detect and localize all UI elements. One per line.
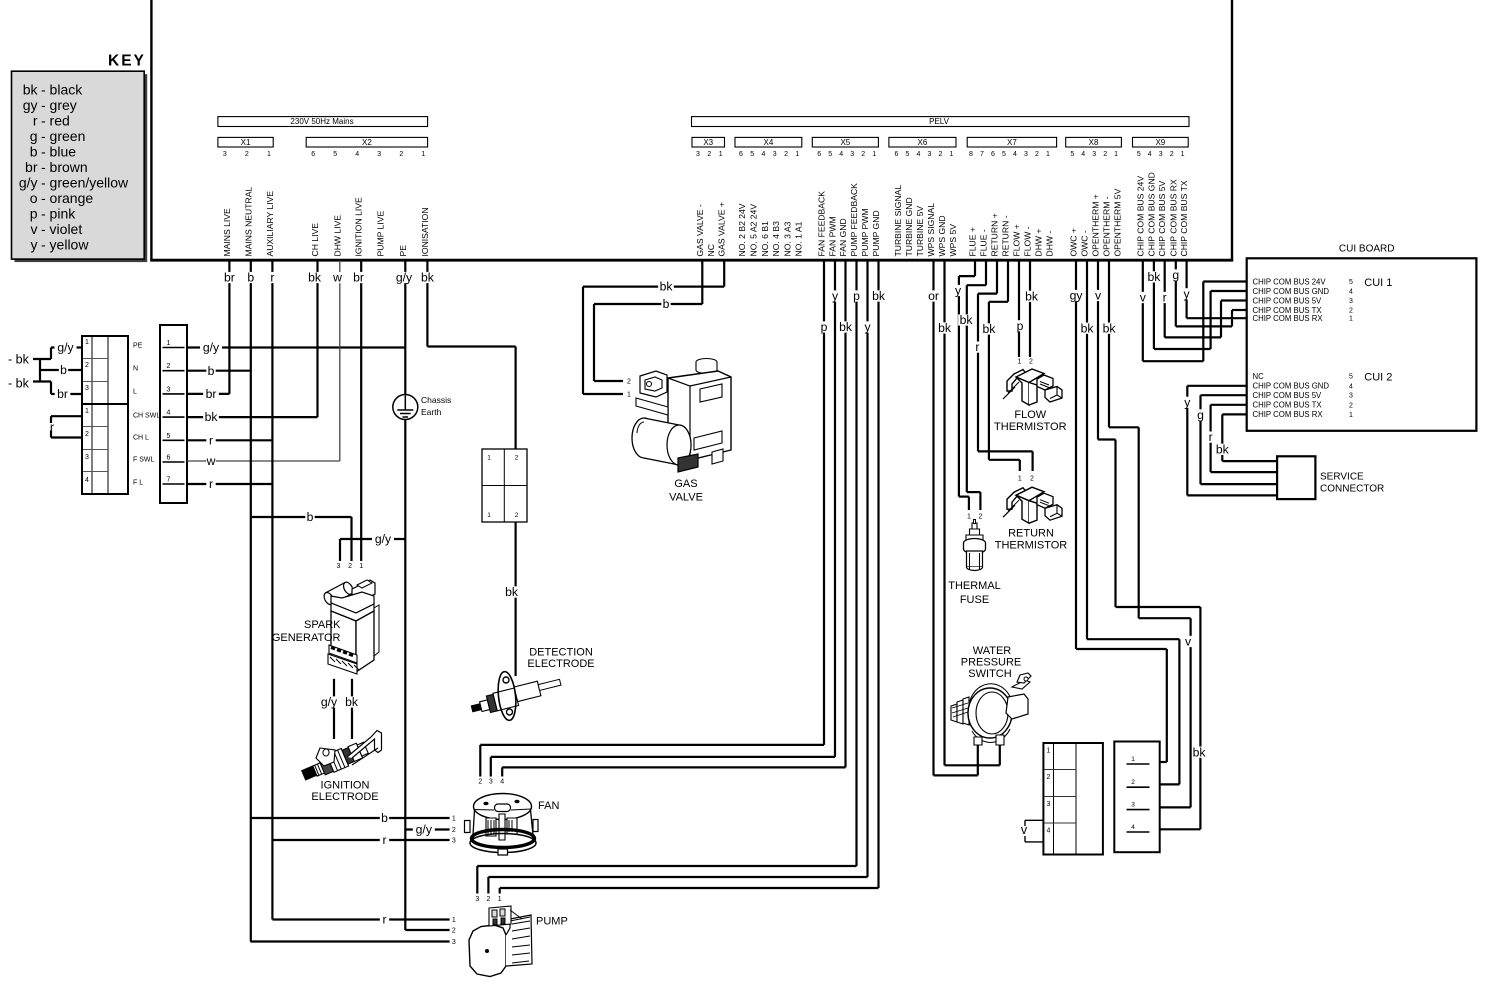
svg-text:CHIP COM BUS GND: CHIP COM BUS GND bbox=[1253, 382, 1330, 391]
svg-text:CHIP COM BUS TX: CHIP COM BUS TX bbox=[1179, 180, 1189, 256]
svg-text:p: p bbox=[853, 289, 860, 303]
svg-text:5: 5 bbox=[1070, 151, 1074, 158]
svg-text:Chassis: Chassis bbox=[421, 395, 451, 405]
svg-text:CHIP COM BUS 5V: CHIP COM BUS 5V bbox=[1253, 391, 1323, 400]
svg-text:X3: X3 bbox=[703, 138, 713, 147]
svg-text:PUMP FEEDBACK: PUMP FEEDBACK bbox=[849, 183, 859, 257]
svg-text:1: 1 bbox=[487, 512, 491, 519]
svg-text:1: 1 bbox=[1047, 748, 1051, 755]
svg-text:7: 7 bbox=[167, 477, 171, 484]
svg-text:AUXILIARY LIVE: AUXILIARY LIVE bbox=[265, 191, 275, 257]
svg-text:br: br bbox=[25, 159, 38, 175]
svg-text:WPS 5V: WPS 5V bbox=[948, 224, 958, 257]
svg-text:2: 2 bbox=[486, 896, 490, 903]
svg-text:3: 3 bbox=[85, 454, 89, 461]
svg-text:FAN PWM: FAN PWM bbox=[828, 216, 838, 256]
svg-text:IGNITION: IGNITION bbox=[321, 780, 370, 792]
svg-text:5: 5 bbox=[906, 151, 910, 158]
svg-text:CHIP COM BUS RX: CHIP COM BUS RX bbox=[1253, 410, 1324, 419]
svg-text:2: 2 bbox=[515, 455, 519, 462]
svg-text:br: br bbox=[353, 271, 364, 285]
svg-text:RETURN +: RETURN + bbox=[990, 213, 1000, 256]
svg-text:CUI BOARD: CUI BOARD bbox=[1339, 244, 1395, 255]
svg-text:3: 3 bbox=[1131, 802, 1135, 809]
svg-text:3: 3 bbox=[475, 896, 479, 903]
svg-text:FLUE -: FLUE - bbox=[979, 229, 989, 256]
svg-text:PELV: PELV bbox=[929, 117, 950, 126]
svg-text:DETECTION: DETECTION bbox=[529, 647, 593, 659]
svg-text:p: p bbox=[821, 320, 828, 334]
svg-text:3: 3 bbox=[1024, 151, 1028, 158]
svg-text:r: r bbox=[975, 340, 979, 354]
svg-text:3: 3 bbox=[167, 386, 171, 393]
svg-text:b: b bbox=[247, 271, 254, 285]
svg-text:1: 1 bbox=[872, 151, 876, 158]
svg-text:CUI 2: CUI 2 bbox=[1364, 372, 1392, 384]
svg-text:v: v bbox=[1140, 291, 1147, 305]
svg-text:Earth: Earth bbox=[421, 407, 442, 417]
svg-text:r: r bbox=[270, 271, 274, 285]
svg-text:bk: bk bbox=[345, 695, 359, 709]
svg-text:GAS VALVE -: GAS VALVE - bbox=[695, 204, 705, 256]
svg-text:SPARK: SPARK bbox=[304, 619, 341, 631]
svg-text:2: 2 bbox=[515, 512, 519, 519]
svg-text:- orange: - orange bbox=[41, 190, 93, 206]
svg-text:br: br bbox=[224, 271, 235, 285]
svg-text:bk: bk bbox=[23, 82, 39, 98]
svg-text:bk: bk bbox=[1147, 270, 1161, 284]
svg-text:4: 4 bbox=[762, 151, 766, 158]
svg-text:5: 5 bbox=[1137, 151, 1141, 158]
svg-text:g/y: g/y bbox=[203, 341, 220, 355]
svg-text:r: r bbox=[209, 477, 213, 491]
svg-text:b: b bbox=[60, 363, 67, 377]
svg-text:b: b bbox=[307, 510, 314, 524]
svg-text:y: y bbox=[955, 284, 962, 298]
svg-text:2: 2 bbox=[1047, 774, 1051, 781]
svg-text:1: 1 bbox=[967, 514, 971, 521]
svg-text:bk: bk bbox=[308, 271, 322, 285]
svg-text:8: 8 bbox=[969, 151, 973, 158]
svg-text:2: 2 bbox=[707, 151, 711, 158]
svg-text:y: y bbox=[1184, 287, 1191, 301]
svg-text:bk: bk bbox=[1103, 321, 1117, 335]
svg-text:IONISATION: IONISATION bbox=[420, 207, 430, 256]
svg-text:bk: bk bbox=[505, 585, 519, 599]
svg-text:2: 2 bbox=[452, 827, 456, 834]
svg-text:3: 3 bbox=[1047, 801, 1051, 808]
svg-text:X7: X7 bbox=[1007, 138, 1017, 147]
svg-text:CHIP COM BUS 5V: CHIP COM BUS 5V bbox=[1157, 180, 1167, 256]
svg-text:1: 1 bbox=[267, 151, 271, 158]
svg-text:NO. 6 B1: NO. 6 B1 bbox=[760, 221, 770, 257]
svg-text:4: 4 bbox=[167, 410, 171, 417]
svg-text:4: 4 bbox=[1013, 151, 1017, 158]
svg-text:bk: bk bbox=[421, 271, 435, 285]
svg-text:CHIP COM BUS 5V: CHIP COM BUS 5V bbox=[1253, 296, 1323, 305]
svg-text:THERMISTOR: THERMISTOR bbox=[994, 421, 1067, 433]
svg-text:THERMISTOR: THERMISTOR bbox=[995, 540, 1068, 552]
svg-text:y: y bbox=[864, 320, 871, 334]
svg-text:3: 3 bbox=[1349, 393, 1353, 400]
svg-text:w: w bbox=[332, 271, 342, 285]
svg-text:6: 6 bbox=[991, 151, 995, 158]
svg-text:CHIP COM BUS TX: CHIP COM BUS TX bbox=[1253, 401, 1323, 410]
svg-text:2: 2 bbox=[627, 379, 631, 386]
svg-text:y: y bbox=[1184, 395, 1191, 409]
svg-text:3: 3 bbox=[452, 939, 456, 946]
svg-text:bk: bk bbox=[982, 322, 996, 336]
svg-text:PE: PE bbox=[398, 245, 408, 257]
svg-text:4: 4 bbox=[1148, 151, 1152, 158]
svg-text:r: r bbox=[1163, 291, 1167, 305]
svg-text:CH LIVE: CH LIVE bbox=[310, 223, 320, 257]
svg-text:bk: bk bbox=[839, 320, 853, 334]
svg-text:1: 1 bbox=[1018, 475, 1022, 482]
svg-text:br: br bbox=[57, 387, 68, 401]
svg-text:2: 2 bbox=[939, 151, 943, 158]
svg-text:THERMAL: THERMAL bbox=[948, 580, 1001, 592]
svg-text:2: 2 bbox=[452, 928, 456, 935]
svg-text:2: 2 bbox=[85, 362, 89, 369]
svg-text:1: 1 bbox=[627, 392, 631, 399]
svg-text:g/y: g/y bbox=[375, 532, 392, 546]
svg-text:FAN GND: FAN GND bbox=[838, 218, 848, 256]
svg-text:- blue: - blue bbox=[41, 144, 76, 160]
svg-text:CHIP COM BUS RX: CHIP COM BUS RX bbox=[1168, 179, 1178, 256]
svg-text:L: L bbox=[133, 389, 137, 396]
svg-text:DHW LIVE: DHW LIVE bbox=[332, 215, 342, 257]
svg-text:2: 2 bbox=[1349, 308, 1353, 315]
svg-text:- pink: - pink bbox=[41, 206, 76, 222]
svg-text:4: 4 bbox=[917, 151, 921, 158]
svg-text:NO. 3 A3: NO. 3 A3 bbox=[782, 221, 792, 256]
svg-text:2: 2 bbox=[85, 431, 89, 438]
svg-text:PRESSURE: PRESSURE bbox=[961, 656, 1022, 668]
svg-text:FLUE +: FLUE + bbox=[968, 227, 978, 256]
svg-text:bk: bk bbox=[938, 321, 952, 335]
svg-text:CHIP COM BUS RX: CHIP COM BUS RX bbox=[1253, 314, 1324, 323]
svg-text:FLOW -: FLOW - bbox=[1023, 226, 1033, 256]
svg-text:1: 1 bbox=[452, 816, 456, 823]
svg-text:DHW -: DHW - bbox=[1045, 231, 1055, 257]
svg-text:- violet: - violet bbox=[41, 221, 82, 237]
svg-text:r: r bbox=[209, 433, 213, 447]
svg-text:3: 3 bbox=[928, 151, 932, 158]
svg-text:6: 6 bbox=[167, 455, 171, 462]
svg-text:1: 1 bbox=[1181, 151, 1185, 158]
svg-text:WATER: WATER bbox=[973, 645, 1012, 657]
svg-text:2: 2 bbox=[1035, 151, 1039, 158]
svg-text:FAN FEEDBACK: FAN FEEDBACK bbox=[817, 191, 827, 257]
svg-text:- bk: - bk bbox=[8, 353, 30, 367]
svg-text:CUI 1: CUI 1 bbox=[1364, 277, 1392, 289]
svg-text:5: 5 bbox=[750, 151, 754, 158]
svg-text:VALVE: VALVE bbox=[669, 492, 703, 504]
svg-text:TURBINE 5V: TURBINE 5V bbox=[915, 206, 925, 257]
svg-text:w: w bbox=[206, 454, 216, 468]
svg-text:6: 6 bbox=[311, 151, 315, 158]
svg-text:2: 2 bbox=[1131, 779, 1135, 786]
svg-text:CHIP COM BUS GND: CHIP COM BUS GND bbox=[1253, 287, 1330, 296]
svg-text:1: 1 bbox=[498, 896, 502, 903]
svg-text:NC: NC bbox=[1253, 372, 1265, 381]
svg-text:5: 5 bbox=[167, 433, 171, 440]
svg-text:WPS SIGNAL: WPS SIGNAL bbox=[926, 203, 936, 257]
svg-text:F L: F L bbox=[133, 480, 143, 487]
svg-text:RETURN: RETURN bbox=[1008, 528, 1054, 540]
svg-text:OPENTHERM -: OPENTHERM - bbox=[1102, 196, 1112, 256]
svg-text:4: 4 bbox=[1349, 289, 1353, 296]
svg-text:r: r bbox=[50, 421, 54, 435]
svg-text:3: 3 bbox=[1092, 151, 1096, 158]
svg-text:g: g bbox=[30, 128, 38, 144]
svg-text:3: 3 bbox=[1159, 151, 1163, 158]
svg-text:5: 5 bbox=[1002, 151, 1006, 158]
svg-text:r: r bbox=[1209, 430, 1213, 444]
svg-text:X8: X8 bbox=[1089, 138, 1099, 147]
svg-text:ELECTRODE: ELECTRODE bbox=[527, 658, 594, 670]
svg-text:1: 1 bbox=[1046, 151, 1050, 158]
svg-text:1: 1 bbox=[167, 340, 171, 347]
svg-text:- green: - green bbox=[41, 128, 85, 144]
svg-text:4: 4 bbox=[1081, 151, 1085, 158]
svg-text:OWC -: OWC - bbox=[1080, 230, 1090, 256]
svg-text:2: 2 bbox=[1103, 151, 1107, 158]
svg-text:2: 2 bbox=[167, 363, 171, 370]
svg-text:PUMP LIVE: PUMP LIVE bbox=[376, 211, 386, 257]
svg-text:X6: X6 bbox=[918, 138, 928, 147]
svg-text:TURBINE SIGNAL: TURBINE SIGNAL bbox=[893, 185, 903, 257]
svg-text:y: y bbox=[31, 237, 38, 253]
svg-text:4: 4 bbox=[1047, 828, 1051, 835]
svg-text:PE: PE bbox=[133, 343, 143, 350]
svg-text:v: v bbox=[31, 221, 38, 237]
svg-text:- red: - red bbox=[41, 113, 70, 129]
svg-text:3: 3 bbox=[452, 838, 456, 845]
svg-text:g: g bbox=[1172, 268, 1179, 282]
svg-text:- black: - black bbox=[41, 82, 83, 98]
svg-text:MAINS NEUTRAL: MAINS NEUTRAL bbox=[243, 187, 253, 257]
svg-text:2: 2 bbox=[1349, 402, 1353, 409]
svg-text:X2: X2 bbox=[362, 138, 372, 147]
svg-text:WPS GND: WPS GND bbox=[937, 215, 947, 256]
svg-text:GENERATOR: GENERATOR bbox=[272, 632, 341, 644]
svg-text:2: 2 bbox=[978, 514, 982, 521]
svg-text:SWITCH: SWITCH bbox=[968, 668, 1011, 680]
svg-text:5: 5 bbox=[828, 151, 832, 158]
svg-text:NO. 1 A1: NO. 1 A1 bbox=[794, 221, 804, 256]
svg-text:CH L: CH L bbox=[133, 435, 149, 442]
svg-text:1: 1 bbox=[487, 455, 491, 462]
svg-text:SERVICE: SERVICE bbox=[1320, 472, 1364, 483]
svg-text:1: 1 bbox=[1349, 412, 1353, 419]
svg-text:MAINS LIVE: MAINS LIVE bbox=[222, 208, 232, 257]
svg-text:2: 2 bbox=[1029, 359, 1033, 366]
svg-text:v: v bbox=[1021, 823, 1028, 837]
svg-text:FAN: FAN bbox=[538, 800, 559, 812]
svg-text:GAS: GAS bbox=[674, 478, 697, 490]
svg-text:bk: bk bbox=[1216, 442, 1230, 456]
svg-text:FLOW +: FLOW + bbox=[1012, 224, 1022, 256]
svg-text:CHIP COM BUS GND: CHIP COM BUS GND bbox=[1146, 172, 1156, 256]
svg-text:TURBINE GND: TURBINE GND bbox=[904, 197, 914, 256]
svg-text:y: y bbox=[832, 289, 839, 303]
svg-text:1: 1 bbox=[85, 339, 89, 346]
svg-text:p: p bbox=[1017, 319, 1024, 333]
svg-text:1: 1 bbox=[452, 917, 456, 924]
svg-text:bk: bk bbox=[960, 313, 974, 327]
svg-text:5: 5 bbox=[333, 151, 337, 158]
svg-text:ELECTRODE: ELECTRODE bbox=[311, 791, 378, 803]
svg-text:1: 1 bbox=[950, 151, 954, 158]
svg-text:bk: bk bbox=[1081, 321, 1095, 335]
svg-text:br: br bbox=[206, 387, 217, 401]
svg-text:CH SWL: CH SWL bbox=[133, 413, 160, 420]
svg-text:4: 4 bbox=[1349, 383, 1353, 390]
svg-text:2: 2 bbox=[1170, 151, 1174, 158]
svg-text:7: 7 bbox=[980, 151, 984, 158]
svg-text:v: v bbox=[1185, 635, 1192, 649]
svg-text:gy: gy bbox=[23, 97, 38, 113]
svg-text:1: 1 bbox=[1131, 756, 1135, 763]
svg-text:4: 4 bbox=[839, 151, 843, 158]
svg-text:PUMP: PUMP bbox=[536, 916, 568, 928]
svg-text:r: r bbox=[33, 113, 38, 129]
svg-text:1: 1 bbox=[1349, 316, 1353, 323]
svg-text:KEY: KEY bbox=[108, 53, 146, 70]
svg-text:r: r bbox=[382, 913, 386, 927]
svg-text:- yellow: - yellow bbox=[41, 237, 89, 253]
svg-text:NO. 5 A2 24V: NO. 5 A2 24V bbox=[748, 204, 758, 257]
svg-text:1: 1 bbox=[85, 408, 89, 415]
svg-text:4: 4 bbox=[85, 477, 89, 484]
svg-text:OPENTHERM 5V: OPENTHERM 5V bbox=[1113, 188, 1123, 256]
svg-text:- bk: - bk bbox=[8, 377, 30, 391]
svg-text:b: b bbox=[663, 297, 670, 311]
svg-text:bk: bk bbox=[1193, 745, 1207, 759]
svg-text:NO. 2 B2 24V: NO. 2 B2 24V bbox=[737, 203, 747, 256]
svg-text:g/y: g/y bbox=[19, 175, 38, 191]
svg-text:DHW +: DHW + bbox=[1034, 229, 1044, 257]
svg-text:3: 3 bbox=[696, 151, 700, 158]
svg-text:bk: bk bbox=[1025, 289, 1039, 303]
svg-text:p: p bbox=[30, 206, 38, 222]
svg-text:2: 2 bbox=[245, 151, 249, 158]
svg-text:bk: bk bbox=[872, 289, 886, 303]
svg-text:- green/yellow: - green/yellow bbox=[41, 175, 129, 191]
svg-text:1: 1 bbox=[1114, 151, 1118, 158]
svg-text:2: 2 bbox=[399, 151, 403, 158]
svg-text:5: 5 bbox=[1349, 374, 1353, 381]
svg-text:X4: X4 bbox=[764, 138, 774, 147]
svg-text:g/y: g/y bbox=[57, 341, 74, 355]
svg-text:CHIP COM BUS 24V: CHIP COM BUS 24V bbox=[1253, 277, 1327, 286]
svg-text:3: 3 bbox=[489, 779, 493, 786]
svg-text:FLOW: FLOW bbox=[1014, 409, 1046, 421]
svg-text:CONNECTOR: CONNECTOR bbox=[1320, 484, 1384, 495]
svg-text:bk: bk bbox=[660, 280, 674, 294]
svg-text:3: 3 bbox=[850, 151, 854, 158]
svg-text:bk: bk bbox=[205, 410, 219, 424]
svg-text:4: 4 bbox=[355, 151, 359, 158]
svg-text:g/y: g/y bbox=[321, 695, 338, 709]
svg-text:v: v bbox=[1095, 289, 1102, 303]
svg-text:1: 1 bbox=[795, 151, 799, 158]
svg-text:FUSE: FUSE bbox=[960, 594, 989, 606]
svg-text:RETURN -: RETURN - bbox=[1001, 215, 1011, 256]
svg-text:N: N bbox=[133, 366, 138, 373]
svg-text:F SWL: F SWL bbox=[133, 457, 154, 464]
svg-text:2: 2 bbox=[784, 151, 788, 158]
svg-text:3: 3 bbox=[773, 151, 777, 158]
svg-text:2: 2 bbox=[478, 779, 482, 786]
svg-text:X5: X5 bbox=[840, 138, 850, 147]
svg-text:2: 2 bbox=[348, 563, 352, 570]
svg-text:r: r bbox=[382, 833, 386, 847]
svg-text:gy: gy bbox=[1070, 289, 1084, 303]
svg-text:- grey: - grey bbox=[41, 97, 77, 113]
svg-text:- brown: - brown bbox=[41, 159, 88, 175]
svg-text:OWC +: OWC + bbox=[1069, 228, 1079, 256]
svg-text:3: 3 bbox=[223, 151, 227, 158]
svg-text:NC: NC bbox=[706, 244, 716, 256]
svg-text:X9: X9 bbox=[1155, 138, 1165, 147]
svg-text:or: or bbox=[928, 289, 939, 303]
svg-text:1: 1 bbox=[359, 563, 363, 570]
svg-text:1: 1 bbox=[421, 151, 425, 158]
svg-text:2: 2 bbox=[861, 151, 865, 158]
svg-text:g/y: g/y bbox=[396, 271, 413, 285]
svg-text:b: b bbox=[208, 364, 215, 378]
svg-text:PUMP GND: PUMP GND bbox=[871, 210, 881, 256]
svg-text:b: b bbox=[30, 144, 38, 160]
svg-text:2: 2 bbox=[1030, 475, 1034, 482]
svg-text:g: g bbox=[1197, 408, 1204, 422]
svg-text:6: 6 bbox=[739, 151, 743, 158]
svg-text:g/y: g/y bbox=[416, 823, 433, 837]
svg-text:b: b bbox=[381, 811, 388, 825]
svg-text:1: 1 bbox=[1018, 359, 1022, 366]
svg-text:5: 5 bbox=[1349, 279, 1353, 286]
svg-text:3: 3 bbox=[85, 385, 89, 392]
svg-text:1: 1 bbox=[719, 151, 723, 158]
svg-text:GAS VALVE +: GAS VALVE + bbox=[717, 202, 727, 256]
svg-text:CHIP COM BUS 24V: CHIP COM BUS 24V bbox=[1135, 176, 1145, 257]
svg-text:4: 4 bbox=[1131, 824, 1135, 831]
svg-text:6: 6 bbox=[817, 151, 821, 158]
svg-text:IGNITION LIVE: IGNITION LIVE bbox=[354, 197, 364, 256]
svg-text:3: 3 bbox=[377, 151, 381, 158]
svg-text:230V 50Hz Mains: 230V 50Hz Mains bbox=[290, 117, 353, 126]
svg-text:OPENTHERM +: OPENTHERM + bbox=[1091, 194, 1101, 256]
svg-text:4: 4 bbox=[500, 779, 504, 786]
svg-text:NO. 4 B3: NO. 4 B3 bbox=[771, 221, 781, 257]
svg-text:6: 6 bbox=[895, 151, 899, 158]
svg-text:PUMP PWM: PUMP PWM bbox=[860, 208, 870, 256]
svg-text:3: 3 bbox=[337, 563, 341, 570]
svg-text:o: o bbox=[30, 190, 38, 206]
svg-text:3: 3 bbox=[1349, 298, 1353, 305]
svg-text:X1: X1 bbox=[241, 138, 251, 147]
